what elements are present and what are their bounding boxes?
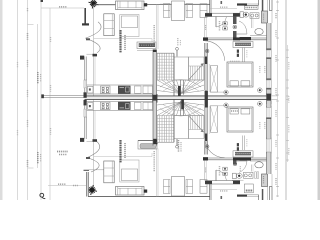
dim jog bottom (28, 167, 34, 169)
bottom hall wall lines (205, 180, 240, 182)
bed top unit (227, 62, 253, 87)
bottom wall step edge line (89, 169, 104, 171)
bottom coffee table inner (121, 169, 137, 181)
bathroom counter (250, 35, 267, 37)
dining cabinet at wall (200, 4, 207, 18)
bottom bed (227, 107, 253, 132)
top left exterior wall upper segment (84, 8, 86, 24)
far dim text col x288 (288, 62, 290, 70)
page right grey band (318, 0, 320, 200)
terrace french door lower leaf arc (86, 38, 101, 53)
bottom bathroom corner vertical (258, 195, 260, 200)
bottom sideboard outline (138, 141, 157, 149)
bottom left wall mid segment (84, 117, 86, 139)
bottom stair stringer dark line x174 (173, 99, 175, 142)
bottom living label text columns (119, 140, 121, 163)
bottom dresser dark bar (235, 152, 251, 156)
hall west wall pair (204, 17, 206, 38)
right wall band top unit grey (267, 23, 272, 50)
dim line x17.5 (17, 0, 19, 200)
party wall junction block at stair right wall (205, 91, 208, 108)
wc toilet bowl (243, 12, 249, 17)
bottom hall closet with X (210, 106, 217, 133)
bottom dresser outline (233, 151, 253, 157)
bottom stair label text (178, 140, 180, 152)
bottom entry circle symbol (205, 145, 209, 149)
bottom stair well rect (174, 116, 189, 139)
top left wall mid segment (84, 57, 86, 81)
bottom bathroom door arc (239, 161, 247, 173)
bottom shower partition (251, 165, 253, 172)
kitchen plain units (135, 86, 142, 93)
bottom bathroom facade wall dark (237, 195, 247, 197)
stair top edge (157, 52, 175, 54)
bottom kitchen unit1 with knob (88, 103, 94, 110)
bottom nightstand right (258, 102, 263, 107)
bottom dining door leaf (215, 170, 217, 181)
kitchen stove with 4 burners (101, 86, 111, 94)
bottom right wall window 2 (266, 139, 271, 152)
bottom left exterior wall lower segment (86, 172, 88, 197)
bottom terrace french door upper leaf arc (87, 141, 100, 158)
stair direction arrow diagonal (189, 64, 204, 80)
terrace label bottom (37, 152, 39, 164)
bathroom door leaf+arc (239, 21, 247, 34)
bottom kitchen stove (101, 102, 111, 110)
bottom bathroom interior wall grey block (262, 174, 268, 187)
top left wall dark corner at party wall (84, 92, 87, 98)
top bathroom window (247, 3, 259, 5)
door floor symbol circle (233, 25, 237, 29)
nightstand right (258, 88, 263, 93)
bottom nightstand left (224, 103, 228, 107)
hall boundary line (208, 64, 210, 92)
top left wall window (84, 80, 87, 88)
bottom living dim pair (155, 149, 157, 197)
terrace label top (37, 72, 39, 84)
bed pillows (230, 81, 238, 86)
bedroom cable lines (242, 48, 244, 63)
stair winder baseline (157, 79, 204, 81)
bottom stair right wall grey (205, 141, 208, 155)
top facade window inner line (94, 5, 116, 7)
bottom bed label (231, 110, 239, 112)
bottom sofa side table dark (144, 190, 147, 193)
terrace dim line top y8 (41, 7, 84, 9)
bottom hall interior dim line (210, 189, 237, 191)
bottom stair right flight landing (189, 116, 205, 139)
section line jog x95 bottom (94, 111, 96, 139)
stair left wall dark cap (153, 50, 157, 53)
faint sheet fold rule right (285, 0, 287, 200)
kitchen unit1 with knob (88, 86, 94, 93)
section line jog x95 top (94, 57, 96, 86)
bottom right wall window 1 (266, 108, 271, 118)
plant star top (89, 0, 99, 9)
sofa side table dark (144, 3, 147, 6)
bottom left wall upper segment (84, 105, 86, 109)
dim line x27.5 (27, 0, 29, 200)
plant star bottom (87, 185, 97, 195)
stair stringer dark line x174 (173, 53, 175, 96)
bottom entry door jamb dark (205, 134, 208, 142)
dim line x41 (40, 0, 42, 200)
second dim ticks (286, 49, 289, 51)
bottom living floor line (94, 156, 152, 158)
second dim line x287.5 (287, 45, 289, 162)
tick x41 top (41, 0, 44, 2)
right wall junction block at party wall (266, 94, 271, 104)
bottom wc area line (232, 179, 244, 181)
bottom terrace door corner block (93, 139, 98, 142)
bottom hall wall dark block left (205, 181, 212, 185)
washbasin double unit (250, 13, 259, 18)
bottom stair right wall dark cap (203, 157, 208, 160)
bottom hall boundary line (208, 106, 210, 134)
bottom terrace door center mark (86, 157, 90, 159)
bedroom switch marks (237, 50, 239, 53)
party wall fill (85, 96, 268, 99)
dim line x37.5 (37, 24, 39, 168)
bathroom radiator top (245, 6, 259, 10)
bottom washbasin double unit (244, 172, 254, 178)
bottom bedroom wall blocks (203, 157, 208, 160)
dining top wall line (160, 3, 210, 5)
dim text x27 col (27, 33, 29, 40)
bottom hall line to nightstand (210, 105, 226, 107)
bathroom oval basin (255, 29, 263, 35)
living area dim pair vertical (155, 5, 157, 50)
living room label text columns (119, 30, 121, 53)
hall closet with X (210, 66, 217, 93)
bottom bathroom wall dark stub (262, 189, 264, 200)
lamp mark top (221, 1, 223, 4)
bottom bathroom window (247, 194, 259, 196)
entry door arc top unit (205, 41, 225, 61)
stair right wall grey (205, 43, 208, 57)
bottom stair left wall grey (153, 101, 157, 146)
right dim ticks (276, 1, 279, 3)
bottom wc toilet bowl (236, 173, 242, 178)
bottom hall wall vertical (209, 184, 211, 200)
bottom hall west wall pair (204, 160, 206, 180)
bottom lamp mark (221, 196, 223, 199)
hall line to nightstand (210, 91, 226, 93)
bottom stair right treads (190, 116, 192, 130)
right dim line x277.5 (277, 0, 279, 197)
bottom unit glazing line along bottom facade (88, 196, 210, 198)
dim line x50 (49, 8, 51, 200)
top bathroom facade wall dark (237, 3, 247, 5)
right wall window caps bottom unit (266, 106, 271, 108)
bedroom dim text top (259, 66, 261, 73)
dim jog top (28, 24, 34, 26)
entry hall wall lower grey (205, 64, 208, 90)
bottom bedroom cable lines (242, 136, 244, 151)
bedroom dim text bottom (259, 122, 261, 129)
bottom stair bottom edge (157, 141, 175, 143)
stair upper flight tread grid (156, 53, 158, 80)
plant glyph bottom left (40, 193, 44, 197)
top left wall jog dark (82, 23, 89, 25)
bottom hall wall dark block right (233, 181, 240, 185)
bottom kitchen plain units (135, 102, 142, 109)
bottom bathroom counter (250, 160, 267, 162)
entry door circle symbol (205, 49, 209, 53)
bottom bathroom label text (239, 166, 241, 172)
party wall junction block at stair left wall (152, 94, 157, 103)
top unit glazing line along top facade (94, 4, 211, 6)
bottom wc toilet tank (233, 173, 237, 178)
section line through plan x93.5 (93, 4, 95, 191)
bottom bath/hall wall x233 (233, 160, 237, 164)
bottom switch marks (237, 147, 239, 150)
bottom walk line arcs (160, 109, 201, 117)
dining table (172, 1, 185, 21)
stair left wall grey (153, 50, 157, 95)
bedroom wall dark block right (240, 37, 252, 40)
bottom terrace french door lower leaf arc (87, 158, 99, 172)
scale fraction text bottom left (57, 151, 68, 153)
hall top wall dark block left (205, 13, 212, 17)
bedroom wall y38-40 (203, 37, 267, 39)
right wall band bottom unit grey (267, 101, 272, 108)
top terrace door corner block (93, 54, 98, 57)
bed label text (230, 60, 240, 62)
bottom left wall window (84, 109, 87, 117)
page left grey band (0, 0, 3, 200)
bottom kitchen dark sink appliance (118, 102, 131, 110)
bathroom interior wall grey block (262, 11, 268, 23)
bottom stair left wall dark cap (153, 139, 157, 144)
kitchen counter lines top unit (87, 84, 154, 86)
wc niche walls (268, 0, 270, 11)
bottom sideboard grey bar (140, 144, 156, 149)
bedroom dresser outline (233, 42, 253, 48)
bottom living rug outer (120, 160, 139, 182)
terrace door center mark (86, 38, 90, 40)
bedroom wall dark block mid (233, 37, 240, 40)
bathroom wall top dark stub (262, 0, 264, 11)
bottom left wall jog line (84, 169, 90, 171)
bottom kitchen counter lines (87, 101, 154, 103)
party wall line extension right (271, 95, 278, 97)
bottom stair arrow diagonal (189, 116, 204, 132)
entry door jamb lower dark (205, 57, 208, 65)
bath/hall wall vertical x233 (233, 17, 237, 25)
wc toilet tank (240, 12, 244, 18)
bottom oval basin (255, 162, 263, 168)
terrace divider wall between units (43, 94, 84, 96)
bottom hall wardrobe boxes (223, 167, 227, 170)
stair text marks (177, 38, 179, 46)
hall top wall dark block right (233, 13, 240, 17)
bathroom corner vertical (258, 0, 260, 5)
bottom entry door arc (205, 138, 225, 158)
right wall window caps top unit (266, 48, 271, 50)
stair right flight treads (190, 66, 192, 80)
bottom dining table (172, 177, 185, 197)
living room loveseat left (104, 14, 114, 36)
terrace french door upper leaf arc (86, 22, 102, 38)
right dim text blobs (275, 13, 277, 19)
bottom winder baseline (157, 115, 204, 117)
nightstand left (224, 90, 228, 94)
right wall window 2 (266, 80, 271, 88)
living room rug outer (120, 15, 139, 37)
bottom living room sofa (116, 187, 145, 196)
stair walk line arcs (160, 80, 201, 88)
dining chairs right (186, 4, 193, 18)
bottom stair winder fan (157, 102, 181, 116)
bottom stair lower flight tread grid (156, 116, 158, 143)
top left wall pier below door (80, 56, 84, 60)
dining chairs left (164, 4, 171, 18)
bottom stair center rail (180, 101, 182, 116)
stair center rail (180, 80, 182, 95)
bottom stair section cut dark marks (181, 99, 184, 109)
hall wall vertical x209.5-211 (209, 0, 211, 13)
dining door leaf (215, 17, 217, 28)
bottom shower box with hatch (244, 184, 253, 193)
terrace dim line bottom y185 (48, 185, 88, 187)
stair winder fan (157, 80, 181, 94)
top left wall lower segment (84, 88, 86, 93)
bottom dining chairs left (164, 180, 171, 194)
dining door arc (216, 17, 227, 27)
bottom towel marks (255, 172, 257, 179)
stair section cut dark marks (178, 86, 181, 96)
sideboard outline at stair wall (137, 42, 156, 49)
bottom left wall pier (80, 138, 84, 142)
bedroom wall dark block left (203, 37, 208, 40)
hall top wall line (205, 12, 240, 14)
bedroom dresser dark bar (235, 43, 251, 46)
bottom stair number tag (176, 145, 179, 148)
bottom dining chairs right (186, 180, 193, 194)
dining door tag text (219, 21, 221, 31)
bottom bed pillows (230, 109, 238, 114)
bottom dining cabinet (200, 180, 207, 194)
living room sofa top (116, 1, 145, 10)
party wall upper edge (85, 95, 268, 97)
bottom bath outer wall connection (267, 174, 269, 187)
right wall window 1 (266, 50, 271, 58)
kitchen dark sink appliance (118, 86, 131, 94)
bath outer wall connection (267, 11, 269, 24)
bottom dining door arc (216, 170, 227, 180)
bottom loveseat left (104, 161, 114, 183)
stair right flight landing (189, 57, 205, 80)
party wall lower edge (85, 98, 268, 100)
hall wardrobe boxes (223, 22, 227, 25)
sideboard hatched dark bar (139, 43, 155, 47)
living room floor line (94, 38, 152, 40)
bottom entry hall wall grey (205, 108, 208, 134)
bottom left wall dark corner at party wall (84, 100, 87, 106)
bottom wc niche walls (268, 187, 270, 201)
hall interior dim line (210, 8, 237, 10)
stair right wall dark cap (203, 38, 208, 41)
bottom door circle symbol (233, 162, 237, 166)
bathroom shower partition (251, 17, 253, 29)
stair number tag circle (176, 47, 179, 50)
stair well rect (174, 57, 189, 80)
living room coffee table inner (121, 16, 137, 28)
living area dim text (153, 25, 155, 46)
bottom bedroom wall y158-160 (203, 157, 267, 159)
